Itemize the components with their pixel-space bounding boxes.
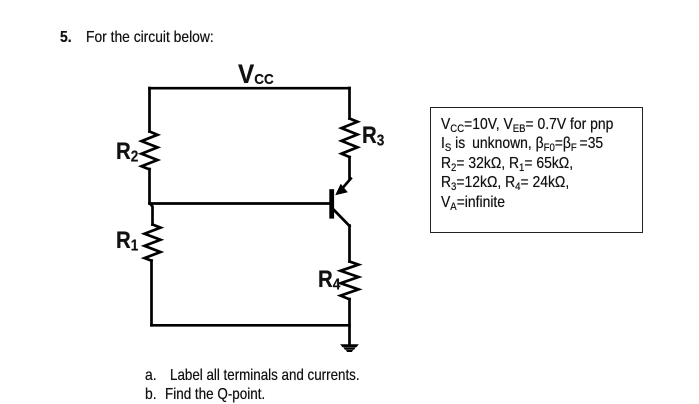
resistor R4 <box>341 262 359 300</box>
transistor Q1 base bar <box>329 189 334 218</box>
resistor R2 <box>142 132 158 170</box>
question b text <box>165 386 284 404</box>
wire: right branch upper (Vcc to R3 top) <box>348 88 351 119</box>
question a text <box>170 367 397 385</box>
wire: left branch upper (Vcc to R2 top) <box>148 88 151 132</box>
wire: base node to transistor base <box>150 202 330 205</box>
parameters text: values for Vcc, Veb, beta, R1-R4, VA <box>441 115 639 212</box>
wire: Vcc top rail <box>150 87 350 90</box>
label R1 <box>116 227 142 256</box>
wire: base node down to R1 top <box>150 204 153 225</box>
wire: R4 bottom through bottom-rail junction to ground <box>348 299 351 345</box>
resistor R1 <box>145 225 161 261</box>
ground symbol <box>340 344 359 347</box>
question b marker <box>145 386 158 404</box>
wire: R2 bottom to base node <box>148 169 151 204</box>
label R3 <box>362 122 388 151</box>
wire: bottom rail <box>152 324 350 327</box>
label R4 <box>318 266 344 295</box>
resistor R3 <box>342 119 358 158</box>
question a marker <box>145 367 158 385</box>
label R2 <box>116 138 142 167</box>
label Vcc (supply net) <box>238 59 278 90</box>
transistor Q1 emitter arrowhead <box>335 184 348 195</box>
problem number "5." <box>60 29 73 47</box>
wire: R3 bottom to emitter bend <box>348 157 351 179</box>
transistor Q1 collector lead <box>334 210 350 227</box>
transistor Q1 emitter lead (pnp arrow into base) <box>344 179 351 188</box>
problem title text <box>86 29 234 47</box>
wire: collector to R4 top <box>348 226 351 262</box>
wire: R1 bottom to bottom rail <box>150 261 153 326</box>
parameters info box <box>430 107 643 233</box>
